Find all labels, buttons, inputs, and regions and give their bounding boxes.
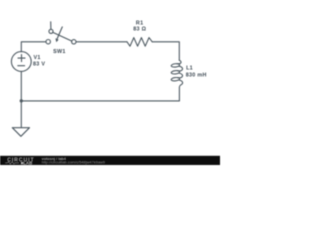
inductor L1 coil loop 1 xyxy=(171,63,180,67)
inductor L1 coil loop 3 xyxy=(171,77,180,81)
footer logo resistor zigzag xyxy=(5,162,19,164)
inductor L1 entry curve xyxy=(177,60,181,64)
inductor L1 coil loop 2 xyxy=(171,70,180,74)
wire junction to ground xyxy=(20,101,22,128)
labels xyxy=(33,20,207,78)
switch SW1 actuate arrow xyxy=(57,27,62,39)
junction node dot xyxy=(20,99,23,102)
wire V1 bottom to junction xyxy=(20,71,22,101)
svg-text:R1: R1 xyxy=(136,20,144,26)
svg-text:■LAB: ■LAB xyxy=(21,160,33,165)
svg-text:SW1: SW1 xyxy=(53,49,66,55)
switch SW1 right terminal xyxy=(72,40,76,44)
V1 plus sign xyxy=(18,55,25,62)
svg-text:http://circuitlab.com/c/548jw4: http://circuitlab.com/c/548jw47k9aw9 xyxy=(42,160,105,165)
wire V1 top to corner to switch xyxy=(21,42,46,52)
footer black bar xyxy=(0,156,220,165)
wire switch to resistor xyxy=(76,41,127,43)
svg-text:830 mH: 830 mH xyxy=(186,73,207,79)
inductor L1 exit bump xyxy=(179,80,183,101)
inductor L1 bump 1 xyxy=(178,66,183,71)
switch SW1 lever xyxy=(53,32,72,41)
switch SW1 handle circle xyxy=(49,29,53,33)
ground symbol triangle xyxy=(12,128,29,137)
svg-text:V1: V1 xyxy=(34,55,41,61)
switch SW1 left terminal xyxy=(46,40,50,44)
voltage source V1 xyxy=(11,52,31,72)
V1 minus sign xyxy=(18,65,25,67)
svg-text:L1: L1 xyxy=(186,66,193,72)
wire bottom to junction xyxy=(21,100,179,102)
switch arrow head xyxy=(55,38,58,42)
inductor L1 bump 2 xyxy=(178,73,183,78)
resistor R1 zigzag xyxy=(127,38,152,47)
wire resistor to top-right corner, down to coil xyxy=(152,42,179,60)
switch SW1 handle stick xyxy=(50,22,52,30)
svg-text:83 Ω: 83 Ω xyxy=(133,27,146,33)
svg-text:83 V: 83 V xyxy=(33,62,45,68)
